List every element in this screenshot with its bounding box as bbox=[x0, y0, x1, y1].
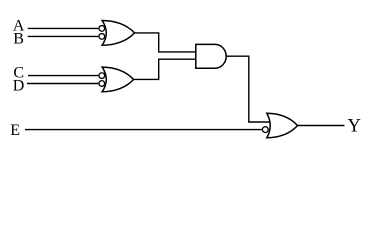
wire U3 output to U4 top input bbox=[226, 56, 273, 122]
wire E input bbox=[25, 129, 262, 131]
svg-text:B: B bbox=[13, 31, 24, 48]
inverter bubble U1 input B bbox=[99, 34, 105, 40]
wire U2 output to U3 bottom input bbox=[133, 59, 197, 79]
inverter bubble U2 input C bbox=[99, 73, 105, 79]
inverter bubble U1 input A bbox=[99, 26, 105, 32]
inverter bubble U2 input D bbox=[99, 81, 105, 87]
svg-text:E: E bbox=[10, 122, 20, 139]
wire U1 output to U3 top input bbox=[134, 33, 197, 52]
inverter bubble U4 input E bbox=[262, 127, 268, 133]
wire Y output bbox=[297, 125, 345, 127]
svg-text:D: D bbox=[13, 78, 25, 95]
or-gate U2 (negated inputs) bbox=[102, 67, 133, 92]
or-gate U4 (one negated input) bbox=[267, 113, 298, 138]
wire B input bbox=[28, 35, 99, 37]
and-gate U3 bbox=[196, 44, 226, 68]
svg-text:Y: Y bbox=[348, 116, 361, 136]
wire D input bbox=[27, 83, 98, 85]
or-gate U1 (negated inputs) bbox=[102, 21, 134, 46]
wire C input bbox=[28, 75, 98, 77]
wire A input bbox=[28, 27, 99, 29]
